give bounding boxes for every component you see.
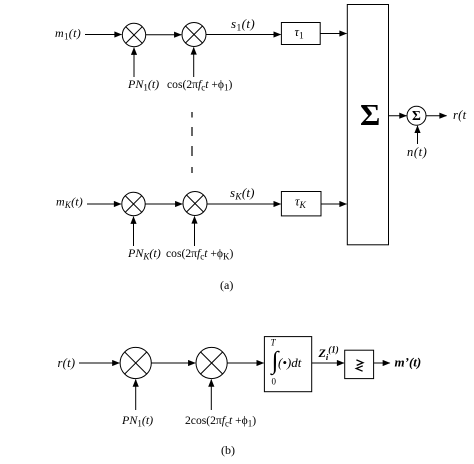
svg-text:n(t): n(t) [407, 145, 427, 159]
adder circle with sigma [407, 106, 426, 125]
arrow PNK to multiplier rowK [133, 217, 135, 246]
arrow PN1 to multiplier b1 [135, 380, 137, 410]
wire tau1 to sigma box [320, 33, 346, 35]
wire adder to r(t) output [426, 115, 447, 117]
dashed separator line [191, 112, 193, 173]
wire sigma box to adder [389, 115, 407, 117]
svg-text:Σ: Σ [360, 97, 380, 132]
svg-text:r(t): r(t) [58, 356, 76, 370]
wire integrator to decision [312, 362, 344, 364]
svg-text:m’(t): m’(t) [395, 355, 422, 370]
wire decision to m'(t) [374, 362, 390, 364]
arrow PN1 to multiplier row1 [133, 48, 135, 77]
svg-text:PN1(t): PN1(t) [121, 413, 153, 429]
svg-text:0: 0 [272, 377, 277, 387]
wire multiplier2 to tauK box [207, 203, 281, 205]
arrow cosK to multiplier rowK [194, 217, 196, 247]
multiplier (mixer) row1 second [182, 23, 206, 47]
svg-text:2cos(2πfct +ϕ1): 2cos(2πfct +ϕ1) [185, 414, 256, 429]
svg-text:s1(t): s1(t) [231, 16, 255, 34]
wire multiplier2 to tau1 box [206, 34, 281, 36]
delay block tau1 [281, 23, 320, 45]
wire mK to multiplier [87, 203, 121, 205]
svg-text:τ1: τ1 [295, 25, 304, 42]
multiplier (mixer) b first [120, 347, 151, 378]
wire multiplier b1 to b2 [151, 362, 195, 364]
arrow 2cos to multiplier b2 [210, 380, 212, 410]
decision block [345, 350, 374, 378]
summer block Sigma [347, 5, 388, 245]
svg-text:PN1(t): PN1(t) [127, 77, 159, 93]
multiplier (mixer) rowK first [122, 192, 145, 215]
arrow n(t) to adder [417, 126, 419, 144]
wire multiplier1 to multiplier2 rowK [145, 203, 182, 205]
multiplier (mixer) row1 first [122, 23, 145, 46]
wire multiplier1 to multiplier2 row1 [146, 34, 182, 36]
svg-text:m1(t): m1(t) [55, 26, 81, 42]
svg-text:Zi(1): Zi(1) [318, 345, 339, 363]
svg-text:τK: τK [295, 195, 306, 212]
svg-text:mK(t): mK(t) [56, 195, 83, 211]
wire m1 to multiplier [85, 34, 122, 36]
wire r(t) to multiplier b1 [79, 362, 119, 364]
multiplier (mixer) b second [196, 347, 227, 378]
svg-text:T: T [271, 338, 277, 348]
arrow cos1 to multiplier row1 [193, 48, 195, 78]
integrator block [264, 337, 311, 392]
svg-text:r(t: r(t [453, 108, 467, 122]
delay block tauK [281, 192, 321, 216]
svg-text:(•)dt: (•)dt [278, 355, 302, 370]
svg-text:cos(2πfct +ϕK): cos(2πfct +ϕK) [166, 247, 233, 262]
multiplier (mixer) rowK second [183, 192, 207, 216]
svg-text:(a): (a) [220, 278, 233, 292]
wire multiplier b2 to integrator [227, 362, 263, 364]
svg-text:sK(t): sK(t) [230, 185, 255, 203]
svg-text:(b): (b) [221, 443, 235, 457]
wire tauK to sigma box [321, 203, 347, 205]
svg-text:PNK(t): PNK(t) [127, 246, 161, 262]
svg-text:Σ: Σ [412, 108, 421, 123]
svg-text:cos(2πfct +ϕ1): cos(2πfct +ϕ1) [167, 78, 232, 93]
